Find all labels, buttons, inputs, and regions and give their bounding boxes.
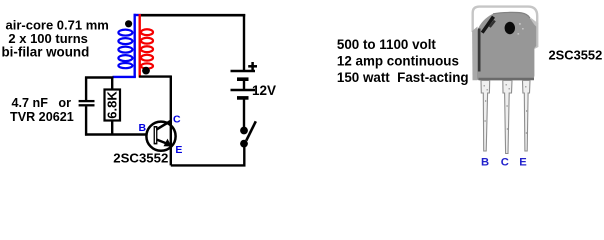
wire: capacitor left leg top (85, 77, 87, 101)
svg-text:12V: 12V (252, 83, 276, 98)
package photo: leg B (481, 81, 490, 152)
battery 12V: plus sign (248, 62, 257, 71)
transformer phasing dot (blue side) (125, 20, 132, 27)
package photo: body (477, 12, 536, 80)
package photo: leg speckles (484, 84, 528, 134)
wire: blue winding bottom going left (113, 76, 136, 78)
transformer T1: blue winding loops (118, 30, 132, 69)
package photo: leg C (503, 81, 512, 154)
package photo: right side light band (531, 18, 539, 50)
battery cell 1 short plate (237, 77, 249, 81)
wire: resistor bottom lead (111, 121, 113, 135)
transformer T1: blue primary vertical bar (133, 14, 135, 77)
svg-text:2SC3552: 2SC3552 (113, 150, 168, 165)
wire: red winding bottom to collector rail (139, 75, 172, 77)
wire: resistor top lead (111, 77, 113, 89)
svg-text:4.7 nF or: 4.7 nF or (12, 96, 72, 110)
svg-text:C: C (173, 113, 181, 125)
transistor Q1 2SC3552: circle (146, 122, 175, 151)
package photo: speckle highlights right of hole (518, 23, 524, 35)
battery cell 2 long plate (231, 89, 256, 92)
switch S1 top contact dot (240, 127, 248, 135)
wire: top rail from transformer to battery (141, 14, 245, 17)
svg-text:E: E (175, 144, 182, 156)
wire: capacitor leg bottom (85, 106, 87, 135)
svg-text:B: B (139, 122, 147, 134)
transistor emitter arrowhead (164, 139, 172, 147)
svg-text:500 to 1100 volt: 500 to 1100 volt (337, 37, 437, 52)
transformer T1: red secondary vertical bar (138, 14, 140, 78)
package photo: leg E (523, 81, 531, 152)
svg-text:bi-filar wound: bi-filar wound (2, 45, 90, 60)
transistor collector diagonal (157, 121, 171, 130)
wire: switch down to bottom rail (243, 146, 245, 165)
battery cell 2 short plate (237, 96, 249, 100)
svg-text:C: C (501, 156, 509, 168)
capacitor C1 top plate (79, 100, 95, 102)
package photo: dark streak marks top-left (481, 16, 495, 34)
svg-text:TVR 20621: TVR 20621 (10, 110, 74, 124)
transformer phasing dot (red side) (142, 67, 150, 75)
wire: collector vertical rail down through transistor to bottom rail (170, 76, 172, 166)
package photo: dark bottom edge (479, 78, 535, 80)
wire: base rail (85, 133, 147, 135)
capacitor C1 bottom plate (79, 104, 95, 106)
package photo: body top edge shade (493, 12, 530, 18)
wire: battery to switch (243, 100, 245, 128)
switch S1 bottom contact dot (240, 140, 248, 148)
svg-text:E: E (519, 156, 527, 168)
svg-text:12 amp continuous: 12 amp continuous (337, 54, 459, 69)
package photo: dark left edge line (478, 29, 481, 72)
svg-text:6.8K: 6.8K (105, 91, 120, 119)
switch blade (246, 121, 256, 140)
battery cell 1 long plate (231, 70, 256, 73)
package photo: left side light band (472, 27, 477, 81)
resistor R1 body (105, 90, 121, 121)
wire between battery cells (243, 81, 245, 90)
transformer T1: red winding loops (141, 29, 153, 68)
package photo: mounting hole (505, 22, 515, 34)
transistor base bar (154, 126, 158, 144)
wire: black continuation to capacitor top (85, 76, 114, 78)
wire: bottom rail right to left (171, 164, 246, 166)
svg-text:B: B (481, 156, 489, 168)
wire: right rail down to battery + (243, 14, 245, 70)
package photo: outer light rim (473, 7, 538, 32)
transformer T1: blue top jog to red bar (134, 14, 141, 16)
transistor emitter diagonal (157, 140, 171, 146)
svg-text:150 watt Fast-acting: 150 watt Fast-acting (337, 70, 469, 85)
svg-text:2SC3552: 2SC3552 (549, 48, 603, 63)
